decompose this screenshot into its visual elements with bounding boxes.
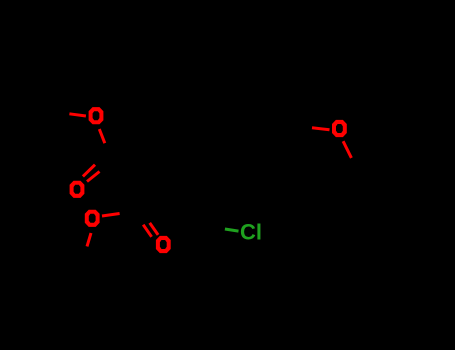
bond O5-Caryl (red half, down-right) [343,141,351,158]
bond O3-CH2 (red half, down-left ethyl) [87,233,91,246]
atom O3 (ester 2 ether oxygen) [85,210,100,227]
double bond C2=O4 line 1 (red half) [143,225,151,237]
double bond C2=O4 line 2 (red half) [150,223,158,235]
atom O4 (ester 2 carbonyl oxygen) [156,236,171,253]
double bond C1=O2 line 1 (red half) [83,165,95,177]
atom O2 (ester 1 carbonyl oxygen) [70,181,85,198]
bond O5-CH2 (red half, to left) [312,128,330,130]
atom O1 (ester 1 ether oxygen) [89,107,104,124]
bond O1-C1 (red half, down-right to carbonyl carbon) [99,129,105,143]
svg-text:Cl: Cl [240,220,262,245]
bond O1-CH2 (red half, to upper-left ethyl) [69,114,86,116]
bond CH2-Cl (green half) [225,229,239,231]
bond O3-C2 (red half, to right toward carbonyl carbon) [102,214,120,217]
atom O5 (aryl ether oxygen) [332,120,347,137]
double bond C1=O2 line 2 (red half) [87,172,100,182]
